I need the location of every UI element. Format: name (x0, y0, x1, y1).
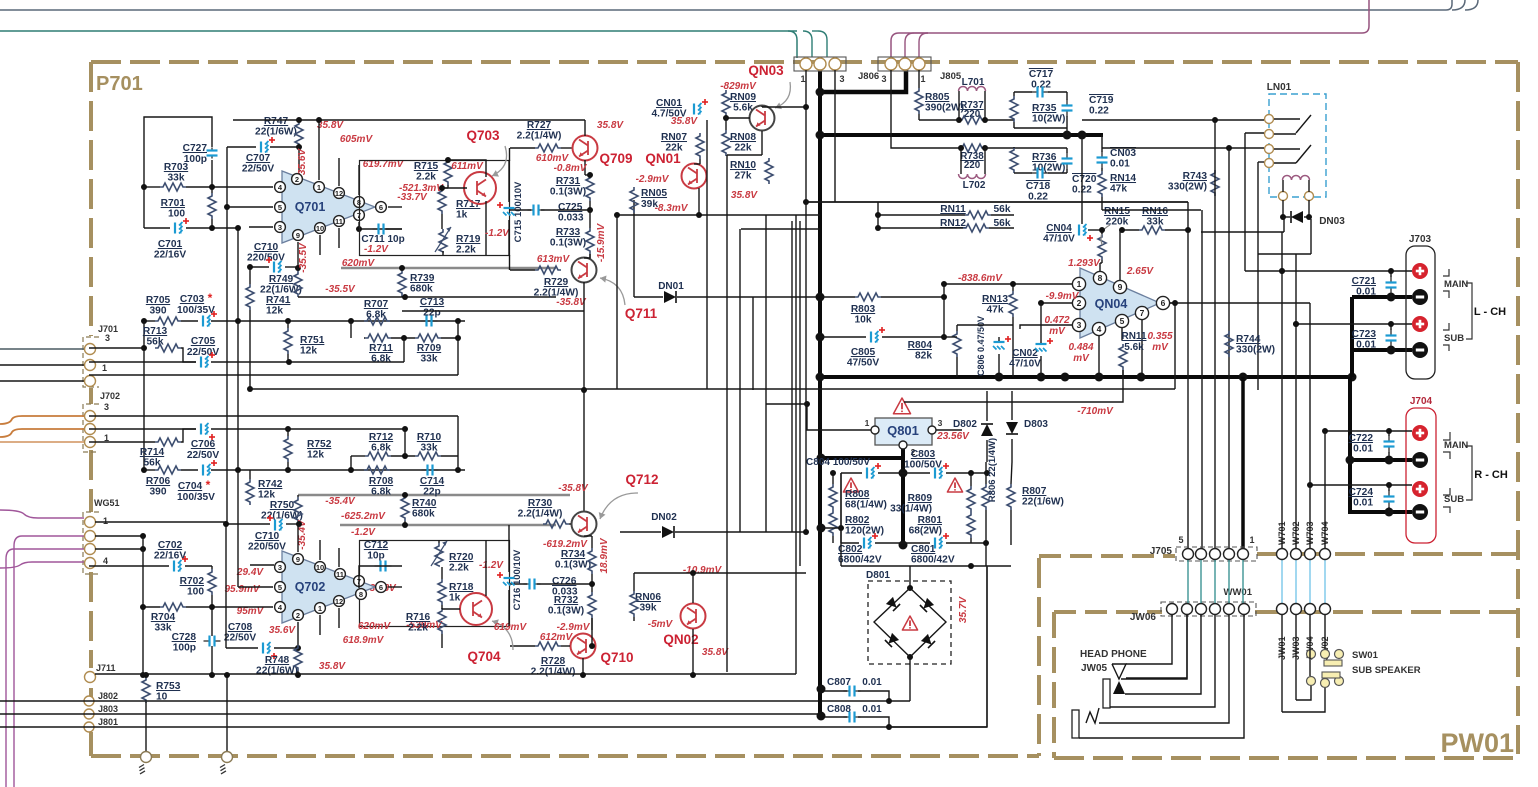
svg-text:QN03: QN03 (748, 63, 784, 78)
svg-text:R751: R751 (300, 335, 325, 346)
wire filter cell1 bottom (1014, 127, 1067, 129)
wire Q701 pin12 up (338, 158, 340, 186)
svg-text:C715 100/10V: C715 100/10V (513, 181, 524, 242)
feedback box Q704 cell (360, 541, 510, 627)
wire Q801 pin3 (936, 429, 962, 431)
wire QN04 pin9 up (1119, 230, 1121, 280)
svg-text:WW01: WW01 (1224, 587, 1253, 598)
capacitor C720 (1066, 153, 1068, 159)
svg-text:6: 6 (1161, 298, 1166, 308)
svg-text:C726: C726 (552, 576, 577, 587)
wire Q701 pin3 left (249, 226, 273, 228)
wire corridor col x1245 (1244, 133, 1246, 271)
wire Q701 pin9 down (297, 242, 299, 268)
svg-text:C710: C710 (254, 242, 279, 253)
wire y390 row (250, 388, 1175, 390)
svg-text:0.01: 0.01 (862, 704, 882, 715)
capacitor C714 (422, 469, 428, 471)
wire gray rail 2 (340, 524, 556, 527)
svg-text:6800/42V: 6800/42V (838, 555, 882, 566)
svg-text:6: 6 (379, 583, 383, 592)
svg-text:Q711: Q711 (625, 306, 658, 321)
svg-text:C805: C805 (851, 347, 876, 358)
svg-text:12: 12 (335, 189, 343, 198)
svg-text:R727: R727 (527, 120, 552, 131)
wire riser x796 (95, 673, 796, 675)
svg-text:R708: R708 (369, 476, 394, 487)
svg-text:611mV: 611mV (451, 161, 484, 172)
wire Q703 base (442, 187, 467, 189)
transistor Q704 (460, 593, 492, 625)
wire R715 top (447, 159, 449, 160)
svg-text:HEAD PHONE: HEAD PHONE (1080, 649, 1147, 660)
svg-text:SW01: SW01 (1352, 650, 1379, 661)
P701 board border (91, 60, 1518, 64)
wire x238 to pin5 (237, 470, 239, 587)
regulator Q801 (875, 418, 932, 445)
svg-text:R750: R750 (270, 500, 295, 511)
svg-text:-35.8V: -35.8V (558, 483, 589, 494)
svg-text:6.8k: 6.8k (371, 354, 391, 365)
wire corridor col x1188 (1187, 202, 1189, 548)
inductor L702 (959, 174, 986, 179)
svg-text:22/50V: 22/50V (187, 347, 219, 358)
wire pin8 upright (358, 165, 360, 195)
svg-text:P701: P701 (96, 73, 143, 95)
svg-text:-1.2V: -1.2V (351, 527, 376, 538)
svg-text:-15.9mV: -15.9mV (596, 222, 607, 262)
wire CN04 riser (1081, 137, 1083, 224)
wire QN04 pin4 down (1098, 336, 1100, 377)
svg-text:R706: R706 (146, 476, 171, 487)
svg-text:-710mV: -710mV (1077, 406, 1114, 417)
svg-text:95.9mV: 95.9mV (224, 584, 260, 595)
svg-text:J802: J802 (98, 691, 118, 701)
wire ground drop 1 (145, 702, 147, 753)
svg-text:68(1/4W): 68(1/4W) (845, 500, 887, 511)
svg-text:DN01: DN01 (658, 281, 684, 292)
svg-text:Q801: Q801 (887, 423, 919, 438)
svg-text:C720: C720 (1072, 174, 1097, 185)
svg-text:-5mV: -5mV (648, 619, 674, 630)
svg-text:11: 11 (335, 217, 343, 226)
svg-text:-9.9mV: -9.9mV (1046, 291, 1080, 302)
svg-text:-35.8V: -35.8V (556, 297, 587, 308)
wire riser x878 (877, 202, 879, 228)
svg-text:35.6V: 35.6V (269, 625, 296, 636)
svg-text:R734: R734 (561, 549, 586, 560)
wire Q702 pins (250, 564, 274, 566)
svg-text:L702: L702 (963, 180, 986, 191)
svg-text:2.2(1/4W): 2.2(1/4W) (517, 131, 562, 142)
wire Q701 pin1 up (318, 120, 320, 180)
svg-text:J801: J801 (98, 717, 118, 727)
wire QN04 pin6 right (1170, 302, 1175, 304)
warning Q801 (893, 398, 910, 414)
svg-text:9: 9 (296, 555, 300, 564)
svg-text:C725: C725 (558, 202, 583, 213)
svg-text:Q701: Q701 (295, 200, 326, 214)
ground (222, 752, 233, 763)
wire y210 row (1102, 209, 1201, 211)
svg-text:J705: J705 (1150, 546, 1173, 557)
wire x634 vert (633, 200, 635, 297)
svg-text:330(2W): 330(2W) (1168, 182, 1207, 193)
svg-text:R809: R809 (908, 493, 933, 504)
capacitor C711 (373, 228, 379, 230)
svg-text:120(2W): 120(2W) (845, 526, 884, 537)
wire DN02 row (620, 531, 661, 533)
capacitor C805 (870, 332, 872, 343)
wire R714 link (181, 429, 196, 442)
svg-text:CN02: CN02 (1012, 348, 1038, 359)
svg-text:33k: 33k (421, 354, 438, 365)
wire riser x753 (752, 297, 754, 390)
svg-text:R714: R714 (140, 447, 165, 458)
svg-text:612mV: 612mV (540, 632, 574, 643)
svg-text:J803: J803 (98, 704, 118, 714)
wire LN01 row1 (1082, 119, 1264, 121)
wire R716 bottom (441, 634, 443, 648)
svg-text:100: 100 (187, 587, 204, 598)
svg-text:R707: R707 (364, 299, 389, 310)
svg-text:RN08: RN08 (730, 132, 756, 143)
svg-text:JW05: JW05 (1081, 663, 1108, 674)
svg-text:C713: C713 (420, 297, 445, 308)
wire J702 orange feeds (0, 416, 84, 424)
svg-text:R744: R744 (1236, 334, 1261, 345)
wire W703 riser (1309, 303, 1311, 548)
wire riser x792 (791, 221, 793, 532)
svg-text:1: 1 (317, 183, 321, 192)
wire rail y416 (89, 415, 458, 417)
op-amp Q701 (282, 171, 375, 243)
svg-text:100/35V: 100/35V (177, 492, 215, 503)
wire Q711 down (583, 282, 585, 311)
svg-text:22p: 22p (423, 487, 441, 498)
svg-text:R732: R732 (554, 595, 579, 606)
wire R715-R717 (447, 185, 449, 188)
wire Q709 vert (584, 120, 586, 136)
svg-text:10: 10 (316, 563, 324, 572)
connector J805 (878, 57, 931, 71)
warning R809 (947, 478, 962, 492)
wire Q701 pin6 right (388, 206, 402, 208)
svg-text:619mV: 619mV (494, 622, 528, 633)
wire R713 link (181, 348, 196, 362)
svg-text:-1.2V: -1.2V (364, 244, 389, 255)
svg-text:0.1(3W): 0.1(3W) (548, 606, 584, 617)
svg-text:Q710: Q710 (600, 650, 633, 665)
svg-text:1.293V: 1.293V (1068, 258, 1101, 269)
svg-text:18.9mV: 18.9mV (599, 537, 610, 573)
svg-text:0.22: 0.22 (1089, 106, 1109, 117)
svg-text:29.4V: 29.4V (236, 567, 264, 578)
svg-text:R - CH: R - CH (1474, 469, 1508, 481)
svg-text:C703: C703 (180, 294, 205, 305)
svg-text:R736: R736 (1032, 152, 1057, 163)
wire Q710 emitter down (582, 658, 584, 675)
svg-text:-838.6mV: -838.6mV (958, 273, 1003, 284)
wire R703 row (144, 186, 160, 188)
svg-text:0.033: 0.033 (558, 213, 584, 224)
wire rail y429 dots (285, 426, 291, 432)
svg-text:35.8V: 35.8V (671, 116, 698, 127)
svg-text:47k: 47k (987, 305, 1004, 316)
wire top slate bus (0, 9, 1446, 11)
svg-text:R701: R701 (161, 198, 186, 209)
svg-text:1k: 1k (456, 210, 468, 221)
wire Q711-Q712 column (583, 311, 585, 512)
svg-text:D801: D801 (866, 570, 890, 581)
wire thick Q801 feed (821, 456, 903, 460)
svg-text:C707: C707 (246, 153, 271, 164)
svg-text:2.2k: 2.2k (416, 172, 436, 183)
wire bridge top (909, 566, 911, 588)
wire riser x806 (805, 203, 807, 532)
wire QN03 collector link (762, 106, 806, 108)
wire W704 riser (1324, 431, 1326, 548)
wire riser x740 (739, 229, 741, 532)
svg-text:R711: R711 (369, 343, 393, 354)
svg-text:4: 4 (103, 556, 108, 566)
svg-text:R801: R801 (918, 515, 943, 526)
wire Q704 emitter (485, 540, 487, 596)
wire J701-3 row (89, 374, 458, 376)
svg-text:11: 11 (336, 570, 344, 579)
op-amp Q702 (282, 551, 375, 623)
svg-text:2.2k: 2.2k (456, 245, 476, 256)
svg-text:-10.9mV: -10.9mV (683, 565, 723, 576)
wire y202 row (806, 201, 1188, 203)
svg-text:-0.8mV: -0.8mV (554, 163, 588, 174)
wire main row y321 (238, 320, 465, 322)
svg-text:QN04: QN04 (1095, 297, 1128, 311)
resistor R738 (959, 144, 985, 152)
wire riser x766 (765, 215, 767, 532)
feedback box Q703 cell (360, 161, 510, 256)
svg-text:12: 12 (335, 597, 343, 606)
svg-text:330(2W): 330(2W) (1236, 345, 1275, 356)
svg-text:2.2(1/4W): 2.2(1/4W) (531, 667, 576, 678)
svg-text:RN05: RN05 (641, 188, 667, 199)
wire Q701 pin7 down (359, 222, 402, 229)
svg-text:1: 1 (1077, 279, 1082, 289)
svg-text:6.8k: 6.8k (371, 443, 391, 454)
svg-text:2.2k: 2.2k (449, 563, 469, 574)
capacitor C701 (144, 227, 170, 229)
svg-text:R729: R729 (544, 277, 569, 288)
wire J803 line (0, 713, 821, 715)
wire bridge bottom (909, 657, 911, 701)
resistor R711 (365, 334, 391, 342)
wire LN01 row4 (1258, 161, 1264, 163)
svg-text:5: 5 (1120, 316, 1125, 326)
svg-text:R733: R733 (556, 227, 581, 238)
svg-text:1: 1 (800, 74, 805, 84)
svg-text:0.01: 0.01 (862, 677, 882, 688)
svg-text:R728: R728 (541, 656, 566, 667)
capacitor CN03 (1101, 152, 1103, 158)
svg-text:9: 9 (1118, 282, 1123, 292)
wire QN01 emitter (698, 188, 700, 215)
wire J805 pin3 down (891, 70, 961, 148)
wire riser x834 (834, 119, 836, 121)
svg-text:0.1(3W): 0.1(3W) (555, 560, 591, 571)
svg-text:R741: R741 (266, 295, 291, 306)
svg-text:-829mV: -829mV (720, 81, 757, 92)
svg-text:3: 3 (278, 223, 282, 232)
svg-text:RN06: RN06 (635, 592, 661, 603)
wire top teal bus (0, 30, 797, 32)
wire thick main vertical bus x820 (818, 64, 822, 716)
svg-text:12k: 12k (266, 306, 283, 317)
svg-text:L - CH: L - CH (1474, 306, 1506, 318)
svg-text:C802: C802 (838, 544, 863, 555)
wire WG51 purple feeds (0, 510, 84, 518)
svg-text:100: 100 (168, 209, 185, 220)
svg-text:1: 1 (865, 418, 870, 428)
svg-text:618.9mV: 618.9mV (343, 635, 385, 646)
connector W701-W704 (1277, 549, 1288, 560)
op-amp QN04 (1080, 268, 1160, 338)
svg-text:27k: 27k (735, 171, 752, 182)
svg-text:-1.2V: -1.2V (479, 560, 504, 571)
svg-text:R713: R713 (143, 326, 168, 337)
resistor R729 (535, 266, 561, 274)
svg-text:12k: 12k (307, 450, 324, 461)
svg-text:12k: 12k (258, 490, 275, 501)
svg-text:LN01: LN01 (1267, 82, 1292, 93)
svg-text:23.56V: 23.56V (936, 431, 970, 442)
svg-text:390: 390 (150, 306, 167, 317)
transistor Q710 (571, 634, 596, 659)
svg-text:0.1(3W): 0.1(3W) (550, 238, 586, 249)
wire left rail x=227 (226, 147, 228, 522)
svg-text:100p: 100p (173, 643, 196, 654)
transistor Q703 (464, 172, 496, 204)
svg-text:5: 5 (1178, 535, 1183, 545)
wire y215 row (617, 214, 820, 216)
warning R808 (843, 478, 858, 492)
wire R720 leads (438, 540, 440, 543)
svg-text:2.2k: 2.2k (408, 623, 428, 634)
svg-text:0.01: 0.01 (1356, 340, 1376, 351)
svg-text:390(2W): 390(2W) (925, 103, 964, 114)
svg-text:100/35V: 100/35V (177, 305, 215, 316)
svg-text:1k: 1k (449, 593, 461, 604)
svg-text:0.01: 0.01 (1356, 287, 1376, 298)
svg-text:-8.3mV: -8.3mV (655, 203, 689, 214)
wire C722 plus row (1325, 430, 1412, 432)
wire QN02 collector (692, 573, 694, 603)
wire headphone wiring (1126, 615, 1172, 664)
wire x458 col (457, 321, 459, 375)
svg-text:0.22: 0.22 (1028, 192, 1048, 203)
svg-text:C704: C704 (178, 481, 203, 492)
svg-text:R747: R747 (264, 116, 289, 127)
svg-text:Q703: Q703 (466, 128, 500, 143)
svg-text:SUB SPEAKER: SUB SPEAKER (1352, 665, 1421, 676)
wire y404 row (766, 403, 807, 405)
svg-text:3: 3 (938, 418, 943, 428)
svg-text:C705: C705 (191, 336, 216, 347)
wire x617 drop (616, 215, 618, 389)
svg-text:5: 5 (278, 583, 282, 592)
svg-text:620mV: 620mV (358, 621, 392, 632)
svg-text:R743: R743 (1183, 171, 1208, 182)
wire x707 riser (706, 120, 708, 389)
svg-text:Q702: Q702 (295, 580, 326, 594)
svg-text:3: 3 (105, 333, 110, 343)
svg-text:R808: R808 (845, 489, 870, 500)
svg-text:CN03: CN03 (1110, 148, 1136, 159)
capacitor C718 (1032, 172, 1038, 174)
wire J806 pin1 down (805, 70, 807, 203)
svg-text:22/50V: 22/50V (224, 633, 256, 644)
svg-text:R716: R716 (406, 612, 431, 623)
svg-text:6800/42V: 6800/42V (911, 555, 955, 566)
svg-text:J711: J711 (96, 663, 116, 673)
svg-text:*: * (206, 478, 211, 492)
wire left cap frame (840, 473, 842, 543)
wire thick horizontal bus y135 (818, 133, 1103, 137)
wire gray rail 1 (298, 494, 570, 497)
wire QN04 pin2 row (1041, 302, 1072, 304)
bracket L-CH (1443, 269, 1449, 276)
svg-text:220/50V: 220/50V (248, 542, 286, 553)
svg-text:C706: C706 (191, 439, 216, 450)
svg-text:22/16V: 22/16V (154, 250, 186, 261)
wire WG51 pin2 row (95, 535, 143, 537)
wire Q701 pin11 down (338, 228, 340, 248)
svg-text:33(1/4W): 33(1/4W) (890, 504, 932, 515)
wire main row y470 (238, 469, 465, 471)
wire Q701 pin10 down (319, 235, 321, 255)
capacitor C802 (863, 538, 865, 549)
svg-text:R803: R803 (851, 304, 876, 315)
wire DN01 row (634, 296, 663, 298)
wire thick bus dots (816, 293, 825, 302)
svg-text:D802: D802 (953, 419, 977, 430)
wire W701-W704 links (1281, 560, 1283, 603)
svg-text:5: 5 (278, 203, 282, 212)
svg-text:J704: J704 (1410, 396, 1433, 407)
svg-text:35.8V: 35.8V (731, 190, 758, 201)
wire y254 row (1258, 253, 1311, 255)
wire riser x800 (799, 221, 801, 566)
wire J801 right riser (889, 567, 987, 727)
wire sw01 links (1296, 686, 1311, 700)
wire thick R-CH sub minus (1350, 510, 1412, 514)
svg-text:-625.2mV: -625.2mV (341, 511, 386, 522)
svg-text:R715: R715 (414, 161, 439, 172)
wire thick right vert x1352 (1350, 297, 1354, 377)
arrow Q711 (600, 278, 625, 305)
svg-text:D803: D803 (1024, 419, 1048, 430)
wire C724 plus row (1310, 484, 1412, 486)
transistor Q712 (572, 512, 597, 537)
wire pin6 row (1170, 302, 1310, 304)
wire J806 pin3 down (834, 70, 836, 202)
svg-text:-2.9mV: -2.9mV (636, 174, 670, 185)
wire thick R-CH vert x1350 (1348, 377, 1352, 514)
svg-text:56k: 56k (994, 204, 1011, 215)
svg-text:35.6V: 35.6V (297, 148, 308, 175)
wire J701 pin lines (0, 348, 85, 350)
wire R731 (589, 174, 591, 176)
wire J801 line (0, 726, 889, 728)
